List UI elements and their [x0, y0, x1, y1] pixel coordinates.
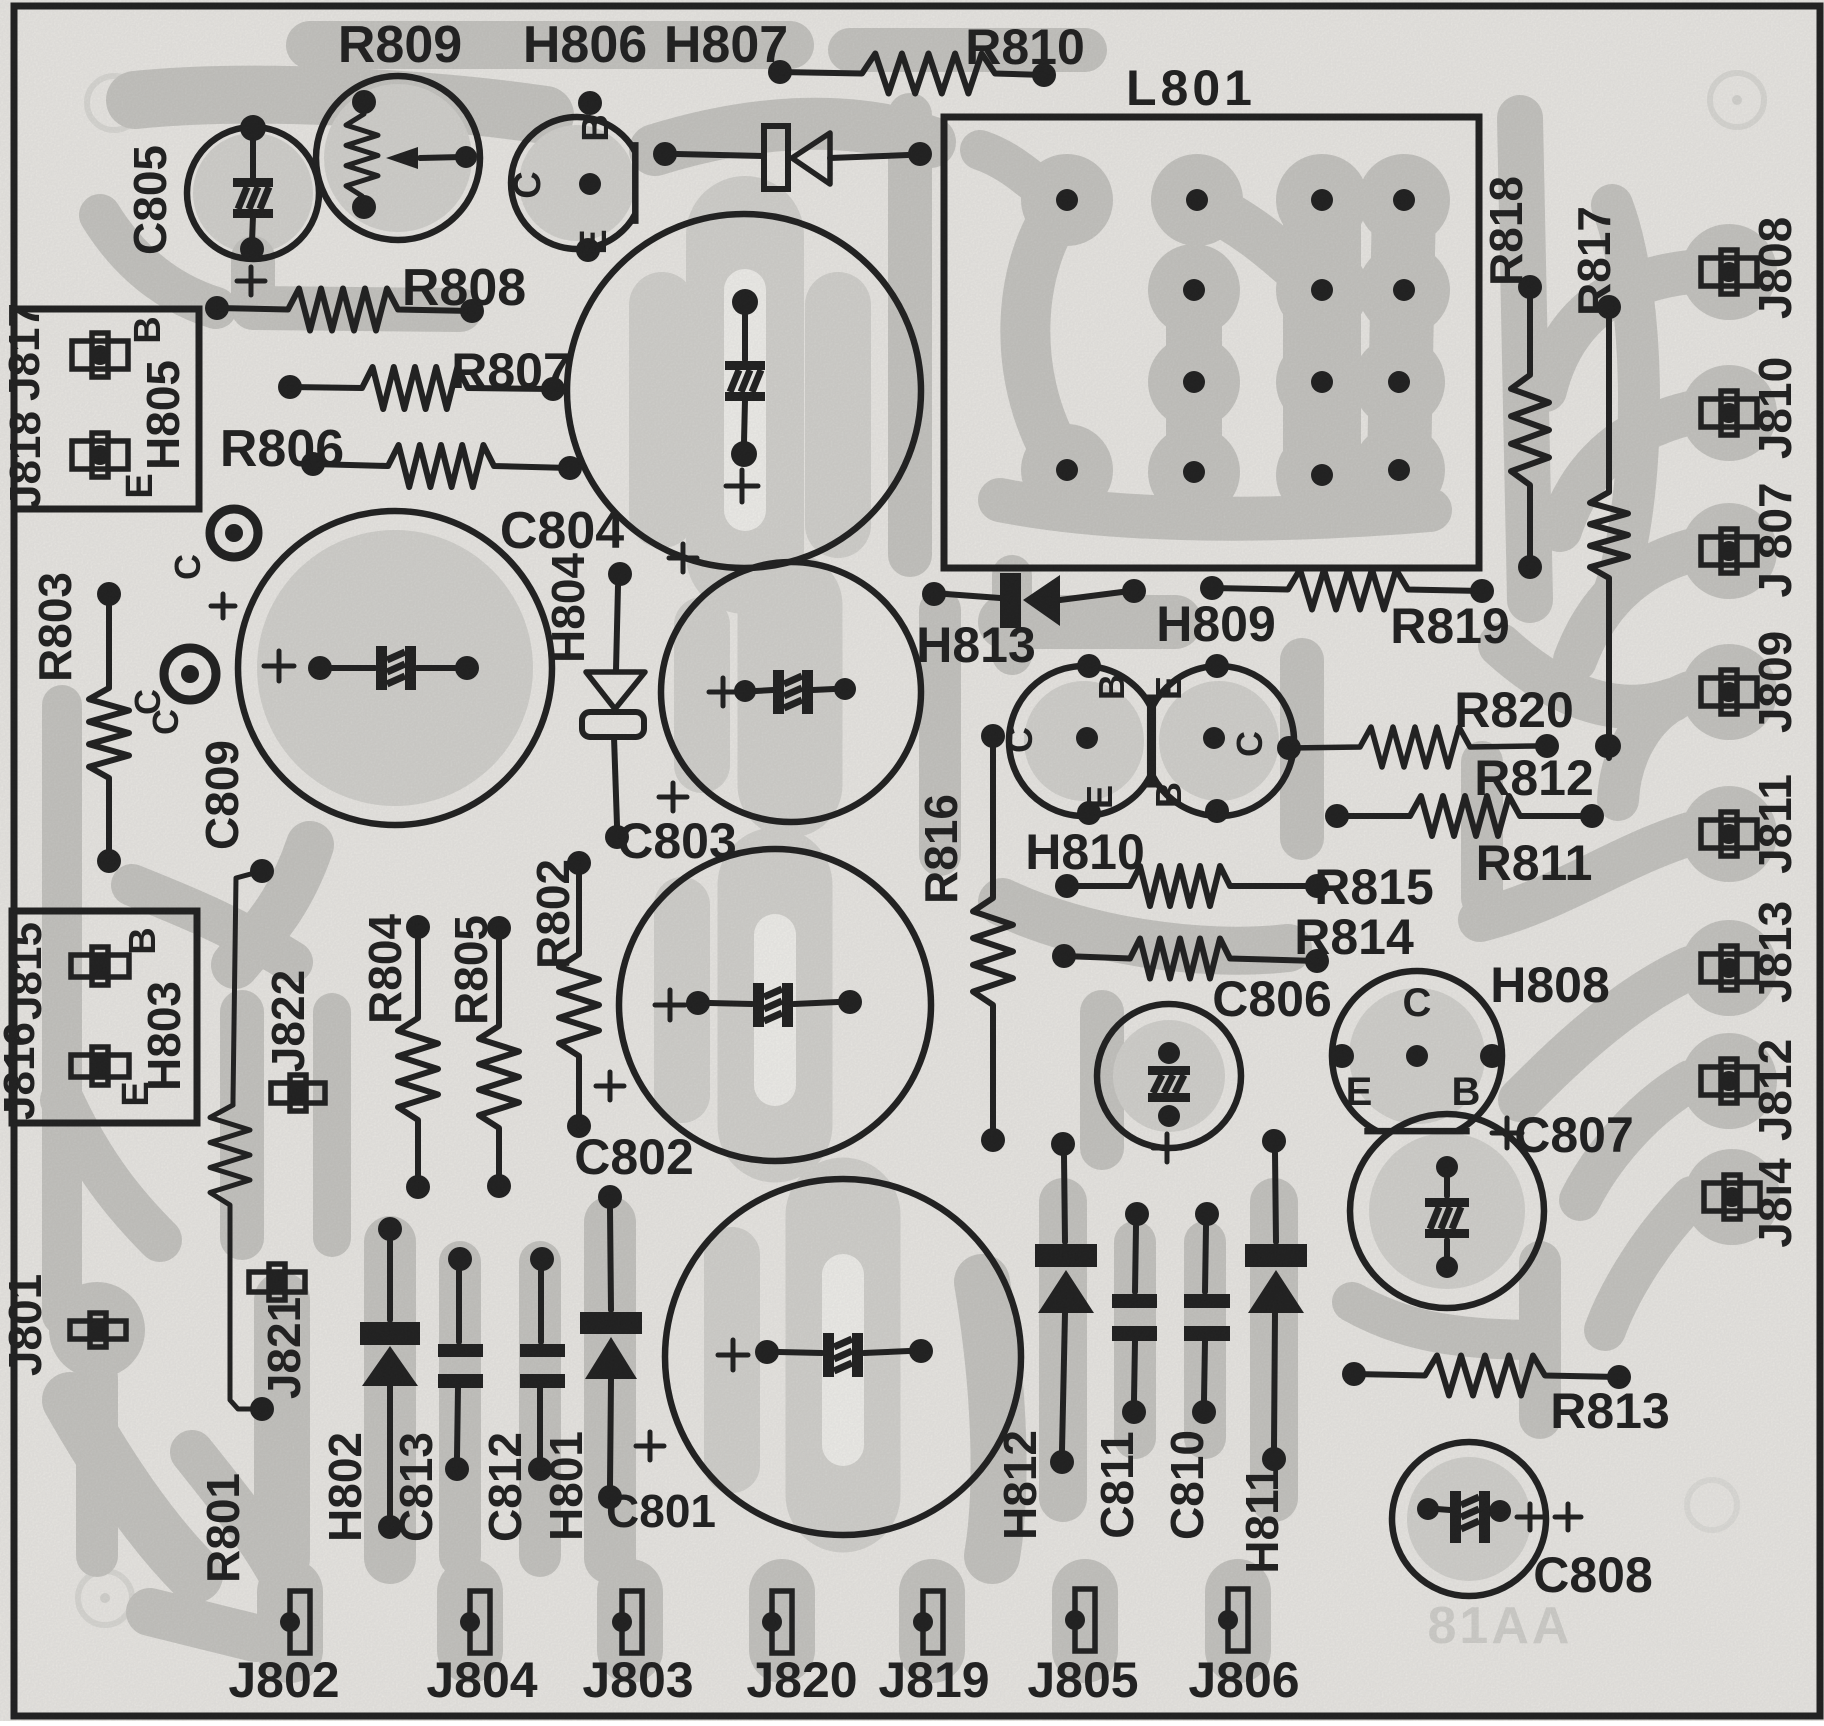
jumper J812 pin: [1701, 1059, 1757, 1103]
L801 pad dot 11: [1056, 459, 1078, 481]
label R814: [1294, 909, 1414, 965]
label J810: [1749, 357, 1801, 459]
label C810: [1161, 1430, 1213, 1540]
label R818: [1480, 176, 1532, 286]
label J821: [258, 1297, 310, 1399]
label R819: [1390, 598, 1510, 654]
label H802: [319, 1432, 371, 1542]
capacitor C808: [1392, 1442, 1581, 1596]
capacitor C813: [438, 1247, 483, 1481]
L801 pad dot 14: [1388, 459, 1410, 481]
H803 pin B: [71, 947, 129, 985]
jumper J808 pin: [1701, 250, 1757, 294]
label J813: [1749, 901, 1801, 1003]
plus near C801 label: [636, 1432, 664, 1460]
label J804: [426, 1652, 537, 1708]
L801 pad dot 2: [1186, 189, 1208, 211]
label R812: [1474, 750, 1594, 806]
label J805: [1027, 1652, 1138, 1708]
label E (H803): [115, 1081, 157, 1106]
resistor R804: [398, 915, 438, 1199]
jumper J811 pin: [1701, 812, 1757, 856]
label R811: [1476, 835, 1593, 891]
capacitor C812: [520, 1247, 565, 1481]
jumper J819 pin: [913, 1591, 943, 1653]
label B (H805): [127, 316, 169, 343]
resistor R801: [210, 1100, 274, 1421]
jumper J802 pin: [280, 1591, 310, 1653]
resistor R803: [89, 582, 129, 873]
jumper J821 pin: [249, 1264, 305, 1300]
resistor R806: [301, 445, 582, 487]
plus mark near washer 1: [211, 594, 235, 618]
label E (H805): [119, 473, 161, 498]
label C813: [390, 1432, 442, 1542]
L801 pad dot 9: [1311, 371, 1333, 393]
label R807: [451, 343, 571, 399]
L801 pad dot 13: [1311, 464, 1333, 486]
label C807: [1514, 1107, 1634, 1163]
label H804: [542, 553, 594, 663]
label R820: [1454, 682, 1574, 738]
resistor R816: [973, 724, 1013, 1152]
resistor R815: [1055, 866, 1329, 906]
label J809: [1749, 631, 1801, 733]
capacitor C807: [1350, 1114, 1544, 1308]
label B (H803): [122, 927, 164, 954]
label J808: [1749, 217, 1801, 319]
diode H804: [582, 562, 645, 849]
H805 pin E: [72, 433, 128, 477]
label C (washer 2b): [145, 709, 186, 735]
label C (washer 2a): [127, 689, 168, 715]
label C811: [1091, 1431, 1143, 1538]
label J802: [228, 1652, 339, 1708]
capacitor C804: [500, 214, 921, 568]
transistor H806: [507, 91, 635, 262]
L801 pad dot 4: [1393, 189, 1415, 211]
capacitor C802: [574, 849, 931, 1185]
plus above C803 label: [659, 783, 687, 811]
resistor R811: [1325, 796, 1604, 836]
jumper J804 pin: [460, 1591, 490, 1653]
label H812: [994, 1430, 1046, 1540]
diode H812: [1035, 1132, 1097, 1474]
resistor R808: [205, 289, 484, 331]
diode H802: [360, 1217, 420, 1539]
label H805: [137, 360, 189, 470]
label R813: [1550, 1383, 1670, 1439]
label L801: [1126, 60, 1256, 116]
resistor R819: [1200, 570, 1494, 610]
potentiometer R809: [316, 76, 480, 240]
connector H803 box: [12, 911, 197, 1123]
label R803: [29, 572, 81, 682]
label C (washer 1): [167, 554, 208, 580]
resistor R802: [559, 851, 599, 1138]
label H813: [916, 617, 1036, 673]
resistor R820: [1277, 727, 1559, 767]
transistor H809 (right): [1148, 654, 1294, 823]
capacitor C803: [661, 562, 921, 822]
L801 pad dot 6: [1311, 279, 1333, 301]
label R806: [220, 420, 344, 478]
label J807: [1749, 482, 1801, 597]
washer pad 1: [210, 509, 258, 557]
resistor R814: [1052, 939, 1329, 979]
label R808: [402, 259, 526, 317]
label J820: [746, 1652, 857, 1708]
capacitor C805: [124, 115, 319, 295]
label R801: [197, 1473, 249, 1583]
L801 pad dot 3: [1311, 189, 1333, 211]
wire C809-R801: [233, 859, 274, 1100]
diode H801: [580, 1185, 642, 1509]
label J817: [0, 303, 49, 401]
jumper J810 pin: [1701, 391, 1757, 435]
resistor R817: [1590, 295, 1628, 758]
label C808: [1533, 1547, 1653, 1603]
label J819: [878, 1652, 989, 1708]
transistor H808: [1330, 971, 1504, 1131]
ghost text: [1428, 1597, 1573, 1655]
label J818: [1, 411, 50, 509]
resistor R807: [278, 367, 565, 409]
label R810: [965, 19, 1085, 75]
L801 pad dot 10: [1388, 371, 1410, 393]
label H808: [1490, 957, 1610, 1013]
label J816: [0, 1022, 44, 1120]
diode H807: [653, 126, 932, 189]
wire R817-R820 junction: [1595, 734, 1619, 758]
diode H811: [1245, 1129, 1307, 1471]
L801 pad dot 7: [1393, 279, 1415, 301]
label R804: [359, 914, 411, 1024]
label J803: [582, 1652, 693, 1708]
label R802: [527, 859, 579, 969]
label H806: [523, 16, 647, 74]
resistor R818: [1511, 275, 1549, 579]
jumper J822 pin: [271, 1075, 325, 1111]
jumper J820 pin: [762, 1591, 792, 1653]
diode H813: [922, 573, 1146, 628]
capacitor C809: [196, 511, 552, 850]
label J812: [1749, 1039, 1801, 1141]
resistor R805: [479, 916, 519, 1198]
label H809: [1156, 596, 1276, 652]
jumper J807 pin: [1701, 529, 1757, 573]
label C812: [479, 1432, 531, 1542]
label R816: [915, 794, 967, 904]
jumper J803 pin: [612, 1591, 642, 1653]
label C803: [617, 813, 737, 869]
transistor H810 (left): [999, 654, 1150, 825]
capacitor C801: [606, 1179, 1021, 1537]
H805 pin B: [72, 333, 128, 377]
capacitor C811: [1112, 1202, 1157, 1424]
H803 pin E: [71, 1047, 129, 1085]
label J806: [1188, 1652, 1299, 1708]
jumper J805 pin: [1065, 1589, 1095, 1651]
label R805: [445, 915, 497, 1025]
jumper J801 pin: [70, 1313, 126, 1347]
label H807: [664, 16, 788, 74]
capacitor C806: [1097, 971, 1332, 1162]
label J801: [0, 1274, 51, 1376]
connector H805 box: [14, 309, 199, 509]
jumper J8i4 pin: [1704, 1175, 1760, 1219]
label J811: [1749, 774, 1801, 874]
L801 pad dot 8: [1183, 371, 1205, 393]
resistor R813: [1342, 1356, 1631, 1396]
label H810: [1025, 824, 1145, 880]
label H811: [1236, 1466, 1288, 1573]
label H801: [540, 1431, 592, 1541]
inductor L801: [944, 117, 1479, 568]
L801 pad dot 12: [1183, 461, 1205, 483]
label J822: [262, 970, 314, 1072]
label J815: [2, 922, 51, 1020]
jumper J806 pin: [1218, 1589, 1248, 1651]
label H803: [138, 981, 190, 1091]
resistor R810: [768, 54, 1056, 94]
label J8i4: [1749, 1158, 1801, 1248]
L801 pad dot 1: [1056, 189, 1078, 211]
label R809: [338, 16, 462, 74]
capacitor C810: [1184, 1202, 1230, 1424]
label R817: [1568, 206, 1620, 316]
plus below C804: [669, 544, 697, 572]
jumper J809 pin: [1701, 670, 1757, 714]
jumper J813 pin: [1701, 946, 1757, 990]
L801 pad dot 5: [1183, 279, 1205, 301]
label R815: [1314, 859, 1434, 915]
washer pad 2: [164, 648, 216, 700]
